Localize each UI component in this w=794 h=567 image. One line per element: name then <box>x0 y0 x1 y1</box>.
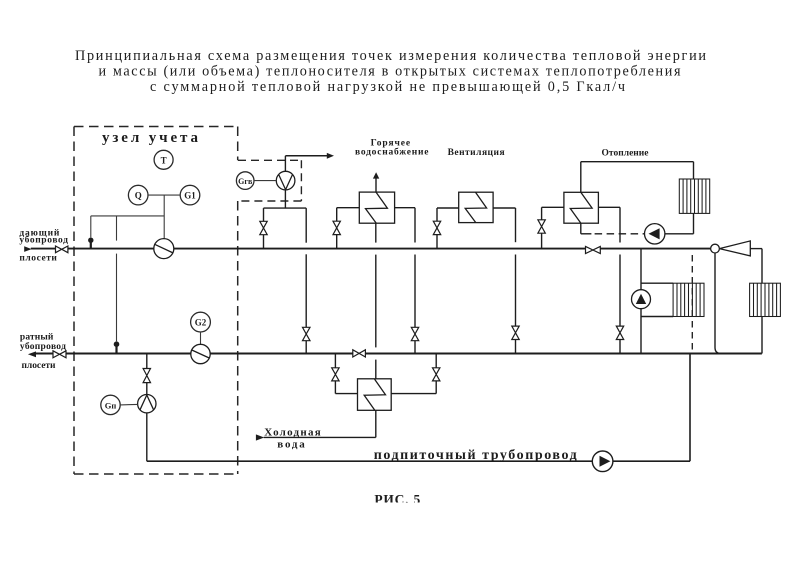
metering unit dashed box (узел учета) <box>74 127 238 475</box>
elevator junction node <box>711 244 720 253</box>
valve on supply right (before elevator) <box>586 246 601 253</box>
figure caption РИС. 5 (clipped) <box>374 492 420 507</box>
heating circulation pump <box>645 224 665 244</box>
elevator mixing pipe down to return <box>715 253 721 354</box>
GVS meter right leg to return <box>305 208 307 353</box>
wire down to supply sensor <box>90 216 92 238</box>
valve on ventilation return pipe <box>512 326 519 339</box>
heating heat exchanger <box>564 192 599 223</box>
radiator middle <box>673 283 704 316</box>
radiator loop pump <box>632 290 651 309</box>
GVS exchanger top vent arrow <box>375 178 377 192</box>
svg-text:убопровод: убопровод <box>20 341 66 352</box>
wire G2 to return flowmeter <box>200 332 202 344</box>
heat calculator circle T <box>154 150 173 169</box>
bottom exchanger right feed valve <box>391 354 436 394</box>
svg-text:Gп: Gп <box>105 400 117 410</box>
bottom exchanger left feed valve <box>335 354 357 394</box>
return line label <box>20 332 66 371</box>
svg-text:узел учета: узел учета <box>102 130 199 146</box>
thermometer sensor on supply <box>88 238 93 249</box>
svg-text:плосети: плосети <box>19 253 57 263</box>
elevator cone <box>719 241 750 256</box>
valve on supply inlet <box>56 246 68 253</box>
GVS exchanger right pipe to return <box>395 208 415 354</box>
system boundary dashed line <box>691 255 693 352</box>
GVS tap from supply <box>337 208 360 249</box>
svg-text:и массы (или объема) теплоноси: и массы (или объема) теплоносителя в отк… <box>99 64 681 80</box>
cold water inlet pipe <box>264 410 376 437</box>
cold water arrow <box>256 434 264 440</box>
supply line label <box>19 227 68 263</box>
svg-text:плосети: плосети <box>22 361 57 371</box>
svg-text:G2: G2 <box>195 318 207 328</box>
svg-text:Отопление: Отопление <box>602 148 649 158</box>
radiator branch pipe with pump <box>641 249 673 354</box>
GVS meter header <box>264 207 307 209</box>
heating secondary top loop <box>581 162 694 193</box>
thermometer sensor on return <box>114 341 120 353</box>
valve on return outlet <box>53 351 66 358</box>
dashed enclosure around GVS flowmeter <box>238 160 301 201</box>
supply main pipe (подающий трубопровод) <box>31 248 711 250</box>
svg-text:Холодная: Холодная <box>264 426 321 438</box>
valve on GVS meter right leg <box>303 327 311 340</box>
return main pipe (обратный трубопровод) <box>36 353 762 355</box>
svg-text:подпиточный трубопровод: подпиточный трубопровод <box>374 448 577 463</box>
valve on GVS return pipe <box>411 327 418 340</box>
label circle Gп <box>101 395 120 414</box>
svg-text:водоснабжение: водоснабжение <box>355 146 429 157</box>
valve on return mid (near elevator) <box>353 350 366 357</box>
radiator top outlet pipe <box>693 213 695 233</box>
radiator right <box>750 283 781 316</box>
flowmeter on supply line <box>154 239 174 259</box>
GVS outlet line with arrow <box>285 155 327 157</box>
sensor header wire <box>91 215 164 217</box>
flowmeter on return line <box>191 344 210 363</box>
GVS heat exchanger <box>359 192 394 223</box>
valve on makeup branch <box>143 369 150 383</box>
svg-text:Принципиальная схема размещени: Принципиальная схема размещения точек из… <box>75 48 706 64</box>
heating tap from supply <box>542 207 564 248</box>
valve on ventilation tap <box>433 221 440 234</box>
heat calculator circle Q <box>128 185 148 205</box>
wire Gп label to meter <box>120 403 137 406</box>
svg-text:G1: G1 <box>184 191 196 201</box>
return outlet arrow <box>28 351 36 357</box>
svg-text:вода: вода <box>277 438 305 450</box>
makeup branch pipe from return <box>146 354 148 462</box>
GVS flowmeter riser <box>284 156 286 208</box>
ventilation tap from supply <box>437 208 459 249</box>
GVS flowmeter circle <box>276 171 295 190</box>
svg-text:Gгв: Gгв <box>238 177 253 186</box>
GVS meter left leg from supply <box>263 208 265 249</box>
svg-text:убопровод: убопровод <box>19 235 68 246</box>
svg-text:Q: Q <box>135 191 142 201</box>
GVS exchanger cold water pipe down <box>375 223 377 379</box>
heating exchanger right pipe to return <box>598 207 620 353</box>
makeup pipeline <box>147 354 690 462</box>
wire Gгв label to meter <box>254 180 276 182</box>
svg-text:РИС. 5: РИС. 5 <box>374 492 420 507</box>
svg-text:Т: Т <box>161 155 167 165</box>
valve on heating return pipe <box>616 326 623 339</box>
flowmeter Gп on makeup branch <box>138 395 156 413</box>
makeup pump <box>592 451 613 472</box>
ventilation exchanger right pipe to return <box>493 208 515 354</box>
valve on heating tap <box>538 220 545 233</box>
svg-text:Вентиляция: Вентиляция <box>448 148 505 158</box>
flow indicator circle G1 <box>180 185 200 205</box>
wire Q to G1 <box>148 194 180 196</box>
heating pump return line (partly dashed) <box>581 223 694 234</box>
flow indicator circle G2 <box>191 312 211 332</box>
label circle Gгв <box>236 172 254 190</box>
valve on GVS meter left leg <box>260 221 267 234</box>
svg-text:ратный: ратный <box>20 332 54 343</box>
ventilation heat exchanger <box>459 192 493 222</box>
svg-text:с суммарной тепловой нагрузкой: с суммарной тепловой нагрузкой не превыш… <box>150 79 625 95</box>
supply inlet arrow <box>24 246 31 252</box>
elevator outlet to riser <box>750 249 762 354</box>
wire G1 junction down to supply flowmeter <box>163 195 165 239</box>
radiator heating top <box>679 179 709 213</box>
valve on GVS tap <box>333 221 340 234</box>
wire down to return sensor <box>116 216 118 341</box>
bottom heat exchanger <box>358 379 392 411</box>
